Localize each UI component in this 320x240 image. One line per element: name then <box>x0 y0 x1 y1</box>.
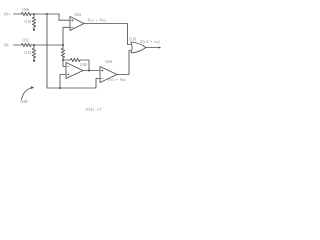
resistor 1106 (series, IN+) <box>22 12 32 15</box>
wire to op-amp row <box>31 13 59 15</box>
wire op-amp 1106 output to op-amp 1104 input <box>83 70 100 72</box>
op-amp U1106 <box>66 63 83 79</box>
svg-text:1106: 1106 <box>80 63 87 67</box>
svg-text:1110: 1110 <box>24 20 31 24</box>
pin + of op-amp 1106 <box>67 74 69 76</box>
arrowhead 1100 <box>31 87 35 90</box>
op-amp U1104 <box>100 67 117 83</box>
wire op-amp 1102 output to summer <box>84 24 131 45</box>
svg-text:Vin + Vos: Vin + Vos <box>88 17 107 22</box>
svg-text:1116: 1116 <box>129 38 136 42</box>
svg-text:1100: 1100 <box>20 100 28 104</box>
svg-text:FIG. 17: FIG. 17 <box>85 107 102 112</box>
pin - of op-amp 1104 <box>101 78 103 80</box>
node junction at top of resistor 1110 <box>33 13 35 15</box>
node junction op-amp 1106 minus tap on bottom rail <box>59 87 61 89</box>
pin + of op-amp 1104 <box>101 70 103 72</box>
wire op-amp 1106 bottom input to bottom rail <box>60 75 66 89</box>
wire IN- to inverting column <box>31 44 63 46</box>
terminal dot below resistor 1114 <box>33 60 35 62</box>
arrowhead output <box>159 47 162 49</box>
resistor 1114 (shunt, IN-) <box>32 45 35 60</box>
op-amp U1102 <box>70 17 84 31</box>
node junction at op-amp 1106 output <box>88 70 90 72</box>
pin - of op-amp 1102 <box>71 26 73 28</box>
reference arrow 1100 <box>22 88 32 100</box>
wire to op-amp 1106 top input <box>63 60 66 67</box>
node junction feedback <box>62 59 64 61</box>
pin + of op-amp 1102 <box>71 19 73 21</box>
svg-text:IN+: IN+ <box>3 12 11 17</box>
wire IN- input <box>14 44 22 46</box>
wire long vertical from IN+ node to bottom rail <box>47 14 100 88</box>
resistor 1408 (feedback) <box>63 58 89 70</box>
summer 1116 <box>131 42 146 53</box>
svg-text:1106: 1106 <box>22 8 29 12</box>
wire op-amp 1102 minus input down to IN- node <box>63 27 70 45</box>
wire op-amp 1104 output up to summer <box>117 51 131 75</box>
wire summer output <box>146 47 159 49</box>
resistor column segment <box>61 48 64 60</box>
svg-text:1114: 1114 <box>24 51 31 55</box>
svg-text:1104: 1104 <box>105 60 112 64</box>
node junction at top of resistor 1114 <box>33 44 35 46</box>
node junction to long vertical <box>46 13 48 15</box>
svg-text:1112: 1112 <box>22 39 29 43</box>
pin - of op-amp 1106 <box>67 66 69 68</box>
resistor 1110 (shunt, IN+) <box>32 14 35 29</box>
node junction IN- and op-amp 1102 minus column <box>62 44 64 46</box>
svg-text:Vo1 + Vos: Vo1 + Vos <box>108 77 127 82</box>
wire IN+ input <box>14 13 22 15</box>
terminal dot below resistor 1110 <box>33 29 35 31</box>
wire column below IN- node through resistor to node <box>62 45 64 48</box>
svg-text:IN-: IN- <box>3 43 10 48</box>
resistor 1112 (series, IN-) <box>22 43 32 46</box>
svg-text:1102: 1102 <box>74 13 81 17</box>
svg-text:Σ(v1 + vo): Σ(v1 + vo) <box>139 39 160 44</box>
wire step down to op-amp 1102 plus input <box>59 14 70 20</box>
